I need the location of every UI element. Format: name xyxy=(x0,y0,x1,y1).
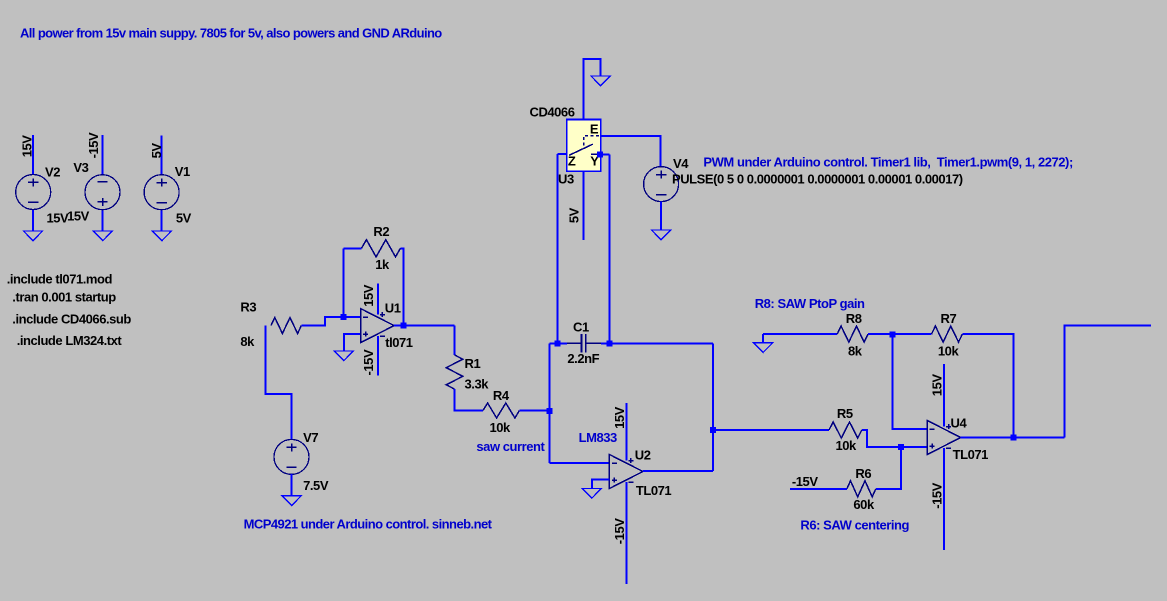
resistor R2 xyxy=(362,240,401,257)
voltage source V3 xyxy=(85,175,120,210)
voltage source V4 xyxy=(644,167,679,202)
ground under V7 xyxy=(282,496,301,506)
svg-text:tl071: tl071 xyxy=(385,335,413,350)
svg-text:15V: 15V xyxy=(612,406,627,429)
wire R3 to node A xyxy=(301,317,343,326)
svg-text:U3: U3 xyxy=(558,171,574,186)
wire stub to C1 left node xyxy=(550,342,558,344)
wire R7 to U4 output xyxy=(962,334,1013,437)
svg-text:15V: 15V xyxy=(361,284,376,307)
svg-text:.tran 0.001 startup: .tran 0.001 startup xyxy=(12,289,116,304)
svg-text:15V: 15V xyxy=(20,135,35,158)
ground under V3 xyxy=(93,231,112,241)
voltage source V2 xyxy=(16,175,51,210)
wire U1 positive power stub xyxy=(377,284,379,315)
wire right feedback column xyxy=(712,343,714,470)
wire V3 bottom xyxy=(102,209,104,231)
wire output to top right xyxy=(1064,326,1151,438)
svg-text:8k: 8k xyxy=(240,334,255,349)
voltage source V1 xyxy=(144,175,179,210)
svg-text:-15V: -15V xyxy=(792,474,818,489)
wire node A to U1 inverting input xyxy=(344,316,361,318)
svg-text:R6: R6 xyxy=(855,466,871,481)
svg-text:C1: C1 xyxy=(573,320,589,335)
svg-text:1k: 1k xyxy=(375,257,390,272)
wire -15V to R6 xyxy=(790,488,847,490)
svg-text:8k: 8k xyxy=(848,344,863,359)
svg-text:10k: 10k xyxy=(490,420,512,435)
junction U4 output xyxy=(1011,434,1017,440)
wire C1 left lead xyxy=(557,342,567,344)
svg-text:All power from 15v main suppy.: All power from 15v main suppy. 7805 for … xyxy=(20,26,442,41)
ground under V1 xyxy=(152,231,171,241)
svg-text:R1: R1 xyxy=(465,356,481,371)
junction R4 node xyxy=(547,408,553,414)
junction C1 left xyxy=(554,340,560,346)
svg-text:R6: SAW centering: R6: SAW centering xyxy=(800,518,909,533)
wire R8 to node C xyxy=(868,333,892,335)
resistor R8 xyxy=(837,326,868,342)
wire V2 bottom xyxy=(32,209,34,231)
wire E pin to V4 xyxy=(601,136,661,167)
svg-text:.include CD4066.sub: .include CD4066.sub xyxy=(12,312,131,327)
wire V7 bottom xyxy=(291,474,293,496)
wire to U2 inverting input xyxy=(550,462,610,464)
voltage source V7 xyxy=(274,439,309,474)
wire U4 negative power stub xyxy=(943,448,945,550)
svg-text:R5: R5 xyxy=(837,406,853,421)
wire V2 top xyxy=(32,135,34,175)
wire node C to U4 inverting input xyxy=(892,334,927,429)
svg-text:15V: 15V xyxy=(47,211,70,226)
op-amp U2 xyxy=(609,454,643,488)
analog switch U3 CD4066 xyxy=(567,120,601,172)
wire V7 to R3 xyxy=(266,326,292,441)
op-amp U1 xyxy=(361,309,395,343)
svg-text:2.2nF: 2.2nF xyxy=(567,351,599,366)
wire R1 to R4 xyxy=(455,389,484,411)
resistor R5 xyxy=(829,422,862,438)
ground at U2 + input xyxy=(582,488,601,498)
wire U2 + input to ground xyxy=(592,480,610,489)
resistor R7 xyxy=(932,326,963,342)
ground above CD4066 xyxy=(591,76,610,86)
ground at R8 left xyxy=(754,343,773,353)
wire node B to U4 + input xyxy=(901,446,927,448)
wire Y pin stub xyxy=(601,153,610,155)
resistor R1 xyxy=(446,355,462,389)
wire R2 left xyxy=(344,247,362,249)
capacitor C1 xyxy=(567,334,601,353)
svg-text:CD4066: CD4066 xyxy=(530,105,575,120)
junction Y pin xyxy=(597,151,603,157)
svg-text:15V: 15V xyxy=(67,208,90,223)
svg-text:V3: V3 xyxy=(73,160,88,175)
junction U1 output xyxy=(400,323,406,329)
svg-text:-15V: -15V xyxy=(930,482,945,508)
wire V4 bottom xyxy=(660,201,662,230)
wire U4 output xyxy=(961,436,1065,438)
svg-text:60k: 60k xyxy=(853,497,875,512)
svg-text:R7: R7 xyxy=(941,311,957,326)
svg-text:Z: Z xyxy=(568,153,576,168)
wire U2 positive power stub xyxy=(625,403,627,461)
ground under V4 xyxy=(652,230,671,240)
svg-text:15V: 15V xyxy=(930,374,945,397)
wire U2 output xyxy=(643,470,713,472)
wire to Z pin xyxy=(557,153,567,155)
svg-text:saw current: saw current xyxy=(476,439,545,454)
wire V3 top xyxy=(102,135,104,175)
svg-text:V2: V2 xyxy=(45,165,60,180)
svg-text:PULSE(0 5 0 0.0000001 0.000000: PULSE(0 5 0 0.0000001 0.0000001 0.00001 … xyxy=(672,172,963,187)
svg-text:.include LM324.txt: .include LM324.txt xyxy=(17,333,123,348)
resistor R3 xyxy=(271,318,301,334)
svg-text:-15V: -15V xyxy=(361,349,376,375)
wire R4 to integrator node xyxy=(519,410,549,412)
svg-text:TL071: TL071 xyxy=(636,483,672,498)
wire R5 to node B xyxy=(862,430,901,447)
junction C1 right xyxy=(607,340,613,346)
wire U4 positive power stub xyxy=(943,364,945,427)
wire V1 bottom xyxy=(161,209,163,231)
wire U2 negative power stub xyxy=(625,482,627,584)
svg-text:TL071: TL071 xyxy=(953,447,989,462)
resistor R6 xyxy=(847,481,876,497)
svg-text:7.5V: 7.5V xyxy=(303,478,329,493)
svg-text:U4: U4 xyxy=(951,415,968,430)
svg-text:.include tl071.mod: .include tl071.mod xyxy=(7,272,113,287)
svg-text:10k: 10k xyxy=(836,438,858,453)
svg-text:5V: 5V xyxy=(176,211,192,226)
svg-text:3.3k: 3.3k xyxy=(465,376,490,391)
svg-text:R8: R8 xyxy=(846,311,862,326)
wire R8 ground stub xyxy=(762,334,764,343)
wire C1 right lead xyxy=(601,342,609,344)
wire U1 output xyxy=(394,325,454,327)
svg-text:R8: SAW PtoP gain: R8: SAW PtoP gain xyxy=(755,296,865,311)
svg-text:R4: R4 xyxy=(493,388,510,403)
wire C1 node to right column xyxy=(610,342,713,344)
wire R2 right down to U1 output xyxy=(400,248,403,325)
wire node A up to R2 xyxy=(343,248,345,317)
ground under V2 xyxy=(23,231,42,241)
ground at U1 + input xyxy=(334,351,353,361)
wire to R1 top xyxy=(454,326,456,356)
wire R6 to node B xyxy=(876,447,901,489)
wire V1 top xyxy=(161,136,163,176)
junction node B xyxy=(898,444,904,450)
svg-text:R2: R2 xyxy=(373,224,389,239)
wire U1 noninverting input to ground xyxy=(344,334,361,351)
wire CD4066 top pin to ground xyxy=(584,59,601,120)
svg-text:E: E xyxy=(590,121,599,136)
svg-text:LM833: LM833 xyxy=(579,430,617,445)
svg-text:V4: V4 xyxy=(673,156,689,171)
svg-text:U2: U2 xyxy=(635,447,651,462)
svg-text:V7: V7 xyxy=(303,430,318,445)
wire Y pin column xyxy=(609,154,611,343)
svg-text:PWM under Arduino control. Tim: PWM under Arduino control. Timer1 lib, T… xyxy=(703,155,1073,170)
junction node C xyxy=(889,331,895,337)
svg-text:MCP4921 under Arduino control.: MCP4921 under Arduino control. sinneb.ne… xyxy=(244,517,493,532)
svg-text:5V: 5V xyxy=(567,207,582,223)
wire U1 negative power stub xyxy=(377,336,379,375)
svg-text:10k: 10k xyxy=(938,344,960,359)
wire integrator node column xyxy=(549,343,551,463)
svg-text:-15V: -15V xyxy=(612,518,627,544)
node A junction xyxy=(341,314,347,320)
wire tap to R5 xyxy=(713,429,829,431)
junction feedback tap xyxy=(710,427,716,433)
wire ground to R8 xyxy=(763,333,837,335)
op-amp U4 xyxy=(927,420,961,454)
wire Z pin column xyxy=(556,154,558,343)
svg-text:5V: 5V xyxy=(149,143,164,159)
wire CD4066 bottom pin 5V xyxy=(583,171,585,240)
svg-text:U1: U1 xyxy=(385,300,401,315)
resistor R4 xyxy=(483,403,519,418)
svg-text:V1: V1 xyxy=(175,164,190,179)
wire node C to R7 xyxy=(892,333,931,335)
svg-text:-15V: -15V xyxy=(86,132,101,158)
svg-text:R3: R3 xyxy=(240,299,256,314)
